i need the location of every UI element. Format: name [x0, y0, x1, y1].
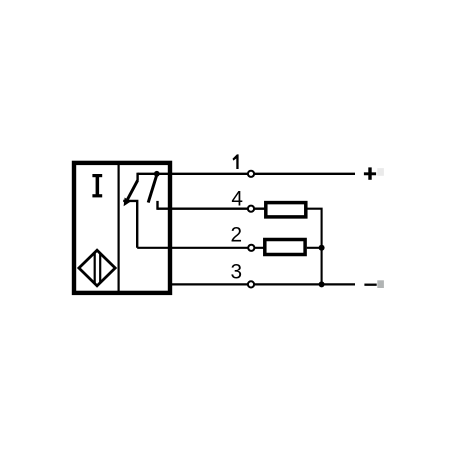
- junction dot on wire 2: [319, 245, 325, 251]
- switch right contact stub: [156, 201, 158, 210]
- svg-text:2: 2: [231, 224, 243, 247]
- minus symbol: [364, 284, 376, 286]
- resistor on wire 2: [265, 240, 305, 255]
- divider line: [117, 162, 119, 295]
- resistor on wire 4: [266, 203, 306, 217]
- junction dot on wire 3: [319, 281, 325, 287]
- wire 4: [158, 207, 265, 209]
- wire 1: [138, 173, 355, 175]
- wire 2: [137, 247, 263, 249]
- wire 3: [169, 283, 355, 285]
- switch arrowhead: [124, 198, 131, 207]
- switch top stub: [136, 173, 138, 181]
- terminal 4: [248, 206, 254, 212]
- svg-text:4: 4: [231, 188, 243, 211]
- minus gray square: [377, 280, 384, 288]
- terminal 2: [248, 245, 254, 251]
- connector from resistor 2 to vertical line: [307, 247, 322, 249]
- switch left arm: [127, 180, 137, 199]
- letter I (inductive symbol): [92, 174, 102, 197]
- plus gray square: [377, 168, 384, 176]
- svg-text:3: 3: [231, 261, 243, 284]
- switch right arm: [148, 175, 157, 203]
- sensor body box: [74, 163, 170, 293]
- switch left contact and drop to wire 2: [123, 201, 137, 248]
- diamond sensor-face symbol: [79, 250, 115, 286]
- switch junction dot: [154, 171, 160, 177]
- connector from resistor 4 down to wire 3: [308, 209, 322, 285]
- terminal 1: [248, 171, 254, 177]
- label 1: [233, 154, 239, 169]
- terminal 3: [248, 281, 254, 287]
- plus symbol: [364, 167, 376, 179]
